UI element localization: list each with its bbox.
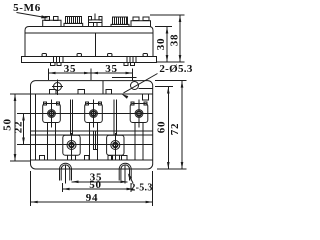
gate terminal pad 2 with M6 screw (107, 135, 124, 155)
side view foot bump 4 (143, 54, 148, 57)
svg-text:30: 30 (155, 38, 167, 50)
plan view tab A (49, 90, 56, 95)
main terminal pad 2 with M6 screw (85, 104, 103, 123)
plan view right hole shelf line (139, 88, 153, 90)
svg-text:22: 22 (13, 121, 25, 133)
plan view tab B (78, 90, 85, 95)
side view terminal T1 pedestal (43, 20, 61, 26)
side view terminal T3 head (89, 17, 92, 20)
gate lead channel 1 (69, 100, 71, 136)
dimension 30 (166, 27, 168, 63)
dimension 50 left (14, 94, 16, 161)
side view lower tab right (124, 63, 128, 66)
side view slot section left (53, 57, 55, 63)
side view slot section right (126, 57, 128, 63)
side view foot bump 2 (77, 54, 82, 57)
leader for 2-5.3 (129, 175, 133, 183)
svg-text:38: 38 (169, 34, 181, 46)
mounting hole right (131, 82, 139, 90)
extension lines for dim 60-72 right (155, 86, 173, 88)
channel lines pad column 1 (47, 123, 49, 160)
extension lines for dim 30 and 38 (155, 26, 172, 28)
side view foot bump 1 (42, 54, 47, 57)
plan view top flange line (31, 93, 153, 95)
dimension 38 (179, 15, 181, 62)
extension ticks bottom 50 (62, 183, 64, 192)
mounting slot 2 outer (119, 163, 131, 180)
plan view tab G (108, 156, 113, 161)
plan view center divider (94, 131, 96, 149)
dimension 35 right (91, 72, 133, 74)
plan view tab C (106, 90, 112, 95)
plan view body outline (31, 81, 153, 169)
side view terminal T4 head (112, 17, 127, 24)
side view terminal T4 base (111, 24, 129, 26)
side view body ledge line (25, 32, 153, 34)
side view terminal T5 screws (133, 17, 139, 21)
gate lead channel 2 (113, 100, 115, 136)
plan view top seam line (102, 81, 104, 94)
channel lines gate column 2 (110, 155, 112, 159)
dimension 22 left (23, 114, 25, 145)
extension lines bottom 94 (30, 171, 32, 206)
extension lines for 35-35 dims (48, 69, 50, 81)
side view terminal T2 head (66, 17, 82, 24)
svg-text:35: 35 (105, 63, 117, 75)
plan view busbar band (31, 130, 153, 132)
channel lines gate column 1 (67, 155, 69, 159)
plan view gate row centerline (31, 144, 153, 146)
svg-text:94: 94 (86, 192, 98, 204)
plan view tab D (142, 94, 148, 100)
side view terminal T5 pedestal (131, 21, 151, 27)
leader for 2-Ø5.3 (124, 74, 158, 93)
dimension 35 bottom (72, 181, 128, 183)
side view baseplate (22, 57, 157, 63)
svg-text:60: 60 (156, 121, 168, 133)
mounting slot 1 inner (61, 165, 70, 181)
plan view left rib line (35, 94, 37, 160)
plan view bottom flange line (31, 159, 153, 161)
svg-text:72: 72 (169, 123, 181, 135)
side view terminal T2 base (64, 23, 83, 26)
svg-text:2-5.3: 2-5.3 (130, 183, 152, 194)
gate terminal pad 1 with M6 screw (63, 135, 80, 155)
mounting slot 2 inner (121, 165, 130, 181)
main terminal pad 3 with M6 screw (130, 104, 148, 123)
channel lines pad column 2 (89, 123, 91, 160)
side view lower tab left (51, 63, 56, 66)
channel lines pad column 3 (134, 123, 136, 160)
extension lines for dim 50-22 left (10, 93, 31, 95)
plan view tab H (122, 156, 127, 161)
svg-text:50: 50 (89, 179, 101, 191)
dimension 50 bottom (63, 188, 134, 190)
plan view tab E (40, 156, 45, 161)
side view module body outline (25, 27, 153, 57)
dimension 72 right (181, 81, 183, 169)
dimension 35 left (49, 72, 92, 74)
side view body vertical partition (95, 33, 97, 57)
main terminal pad 1 with M6 screw (43, 104, 61, 123)
leader for 5-M6 (17, 13, 46, 18)
dimension 94 (31, 201, 153, 203)
plan view right step line (112, 77, 137, 79)
svg-text:35: 35 (64, 63, 76, 75)
plan view horizontal centerline (31, 113, 153, 115)
svg-text:2-Ø5.3: 2-Ø5.3 (159, 63, 192, 75)
mounting slot 1 outer (60, 163, 72, 180)
dimension 60 right (167, 87, 169, 170)
mounting hole left (54, 83, 62, 91)
side view terminal T3 base (89, 20, 103, 27)
side view terminal T1 screws (45, 17, 49, 21)
plan view tab F (85, 156, 90, 161)
side view foot bump 3 (108, 54, 113, 57)
